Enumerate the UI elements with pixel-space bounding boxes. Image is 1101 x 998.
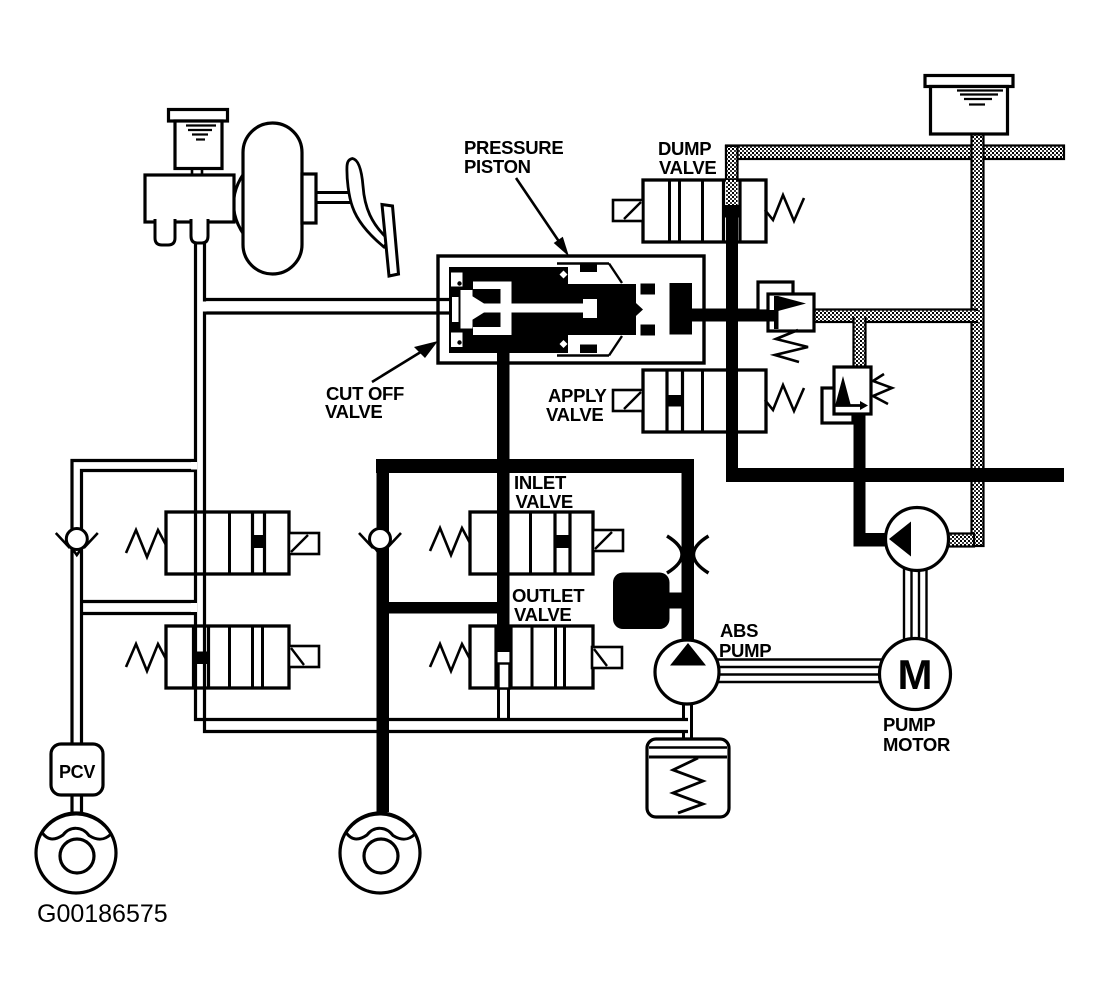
apply valve body bbox=[643, 370, 766, 432]
ABS pump triangle bbox=[670, 643, 706, 666]
valve L1 crossbar bbox=[251, 535, 266, 548]
motor drive lines horizontal bbox=[717, 658, 882, 660]
piston white flange bbox=[461, 290, 473, 329]
wire thick piston outlet line bbox=[692, 309, 768, 322]
wire thick piston feed line down to outlet valve bbox=[497, 353, 510, 652]
pump motor circle bbox=[880, 639, 951, 710]
wire master cylinder pipe down + bottom return (outer line) bbox=[196, 243, 689, 720]
brake pedal arm bbox=[347, 159, 389, 248]
master cylinder reservoir cap bbox=[169, 110, 228, 122]
svg-text:PRESSURE: PRESSURE bbox=[464, 137, 563, 158]
svg-text:VALVE: VALVE bbox=[546, 404, 603, 425]
wire thick line to middle wheel bbox=[377, 473, 390, 812]
valve body left outlet (L2) bbox=[166, 626, 289, 688]
motor drive lines vertical bbox=[903, 569, 905, 640]
reservoir stem bbox=[191, 168, 194, 176]
wire thick main line right segment bbox=[726, 468, 1064, 482]
brake booster bbox=[243, 123, 302, 274]
svg-text:PCV: PCV bbox=[59, 762, 95, 782]
piston corner blob bottom bbox=[451, 333, 463, 348]
svg-text:APPLY: APPLY bbox=[548, 385, 607, 406]
piston white slot bbox=[452, 297, 459, 322]
wire outlet valve drain pipe bbox=[497, 688, 500, 720]
dump valve crossbar bbox=[722, 205, 741, 218]
wire thick cross stub bbox=[381, 602, 509, 614]
valve L1 solenoid coil bbox=[289, 533, 319, 554]
check valve on middle line bbox=[359, 533, 373, 548]
svg-text:PISTON: PISTON bbox=[464, 156, 531, 177]
reservoir cap bbox=[925, 76, 1013, 87]
ABS pump circle bbox=[655, 640, 719, 704]
piston chamber top outline bbox=[557, 262, 609, 264]
pressure piston arrow bbox=[516, 178, 559, 242]
relief valve 1 inlet stub bbox=[768, 310, 778, 322]
piston step notch bottom bbox=[580, 345, 597, 354]
master cylinder port 1 bbox=[155, 219, 175, 245]
relief valve 2 spring bbox=[873, 374, 892, 404]
svg-text:DUMP: DUMP bbox=[658, 138, 711, 159]
booster rear shell arc bbox=[234, 163, 253, 245]
wire left branch pipe (outer) bbox=[72, 461, 196, 747]
piston white square on rod bbox=[583, 299, 597, 318]
valve M2 slot outline bbox=[499, 664, 510, 689]
hatch junction patch 1 bbox=[727, 147, 736, 158]
wire junction gap bbox=[191, 462, 197, 470]
dump valve solenoid coil bbox=[613, 200, 643, 221]
wire hatched reservoir suction line (vertical) bbox=[972, 134, 984, 546]
valve M2 spring bbox=[430, 644, 470, 671]
hatch junction patch 4 bbox=[855, 311, 865, 321]
valve M1 spring bbox=[430, 528, 470, 555]
wire middle connector pipe bbox=[82, 600, 196, 603]
svg-text:VALVE: VALVE bbox=[325, 401, 382, 422]
svg-text:ABS: ABS bbox=[720, 620, 758, 641]
relief valve 2 triangle bbox=[835, 376, 851, 406]
accumulator spring bbox=[673, 758, 703, 813]
valve M2 solenoid coil bbox=[592, 647, 622, 668]
wire hatched line from relief valve to suction line bbox=[814, 310, 977, 323]
relief valve 1 spring bbox=[775, 330, 808, 362]
piston white bracket bbox=[473, 282, 512, 290]
valve L2 crossbar bbox=[192, 652, 210, 665]
piston left black block bbox=[449, 267, 568, 353]
accumulator piston lines bbox=[649, 746, 727, 749]
piston white diamond bottom bbox=[560, 340, 568, 348]
return pump triangle bbox=[889, 522, 911, 557]
PCV box bbox=[51, 744, 103, 795]
piston seal black bottom bbox=[641, 325, 656, 336]
master cylinder port 2 bbox=[191, 219, 208, 243]
piston right black mass bbox=[670, 283, 693, 335]
valve body outlet valve (M2) bbox=[470, 626, 593, 688]
wire thick main line left segment bbox=[376, 459, 693, 473]
wheel brake middle bbox=[340, 813, 420, 893]
svg-text:OUTLET: OUTLET bbox=[512, 585, 585, 606]
dump valve hatched slot bbox=[726, 180, 738, 206]
booster output housing bbox=[302, 174, 316, 223]
apply valve crossbar bbox=[666, 395, 685, 407]
cut off valve arrow bbox=[372, 350, 424, 382]
relief valve 1 arrow bbox=[774, 296, 779, 329]
wire thick dump valve line down bbox=[726, 218, 738, 483]
svg-text:PUMP: PUMP bbox=[719, 640, 771, 661]
apply valve solenoid coil bbox=[613, 390, 643, 411]
valve body inlet valve (M1) bbox=[470, 512, 593, 574]
wire thick relief to pump line bbox=[854, 414, 866, 540]
valve L1 spring bbox=[126, 530, 166, 557]
svg-text:G00186575: G00186575 bbox=[37, 900, 168, 928]
hatch junction patch 3 bbox=[973, 311, 983, 321]
brake pedal pad bbox=[382, 205, 399, 277]
piston black arrow bbox=[597, 299, 643, 321]
svg-text:VALVE: VALVE bbox=[516, 491, 573, 512]
valve M1 crossbar bbox=[554, 535, 572, 548]
wire thick damper stub bbox=[668, 593, 683, 609]
reservoir fluid lines bbox=[957, 89, 1003, 91]
piston seal black top bbox=[641, 284, 656, 295]
piston white diamond top bbox=[560, 271, 568, 279]
svg-text:M: M bbox=[898, 651, 933, 698]
valve body left inlet (L1) bbox=[166, 512, 289, 574]
dump valve body bbox=[643, 180, 766, 242]
cut off valve / pressure piston housing outline bbox=[438, 256, 704, 363]
relief valve 2 arrow line bbox=[835, 404, 863, 407]
dump valve spring bbox=[765, 195, 804, 221]
svg-text:MOTOR: MOTOR bbox=[883, 734, 950, 755]
relief valve 1 front box bbox=[768, 294, 814, 331]
wire hatched elbow into pump suction bbox=[948, 534, 974, 547]
wire left branch pipe (inner) bbox=[82, 471, 196, 747]
piston corner blob top bbox=[451, 273, 463, 287]
wire master cylinder pipe down + bottom return (inner line) bbox=[205, 243, 689, 732]
wheel brake left bbox=[36, 813, 116, 893]
valve L2 solenoid coil bbox=[289, 646, 319, 667]
reservoir body bbox=[931, 87, 1008, 135]
svg-text:PUMP: PUMP bbox=[883, 714, 935, 735]
wire PCV to wheel pipe bbox=[70, 795, 73, 814]
piston step notch top bbox=[580, 264, 597, 272]
return pump circle bbox=[886, 508, 949, 571]
check valve on left pipe bbox=[56, 533, 70, 548]
damper black blob bbox=[613, 573, 670, 630]
svg-text:VALVE: VALVE bbox=[659, 157, 716, 178]
svg-text:VALVE: VALVE bbox=[514, 604, 571, 625]
apply valve spring bbox=[765, 385, 804, 411]
wire thick line to ABS pump bbox=[682, 459, 695, 641]
master cylinder body bbox=[145, 175, 234, 222]
relief valve 2 front box bbox=[834, 367, 871, 414]
master cylinder reservoir fluid lines bbox=[186, 124, 216, 126]
wire pipe to cut off valve bbox=[206, 298, 452, 301]
wire booster pushrod bbox=[316, 191, 350, 194]
wire pump to accumulator pipe (right line) bbox=[690, 702, 693, 740]
wire hatched branch down to second relief valve bbox=[854, 318, 866, 367]
valve L2 spring bbox=[126, 644, 166, 671]
restrictor orifice symbol bbox=[667, 536, 682, 573]
valve M1 solenoid coil bbox=[593, 530, 623, 551]
relief valve 2 back box bbox=[822, 388, 853, 423]
wire hatched drop into dump valve bbox=[726, 146, 738, 182]
svg-text:INLET: INLET bbox=[514, 472, 567, 493]
relief valve 1 back box bbox=[758, 282, 793, 311]
accumulator body bbox=[647, 739, 729, 817]
wire pump to accumulator pipe (left line) bbox=[682, 702, 685, 719]
piston middle black mass bbox=[568, 284, 636, 335]
wire hatched return line from dump valve to reservoir (horizontal) bbox=[726, 146, 1064, 160]
hatch junction patch 2 bbox=[973, 147, 983, 158]
piston white rod bbox=[472, 304, 583, 313]
master cylinder reservoir body bbox=[175, 121, 222, 169]
